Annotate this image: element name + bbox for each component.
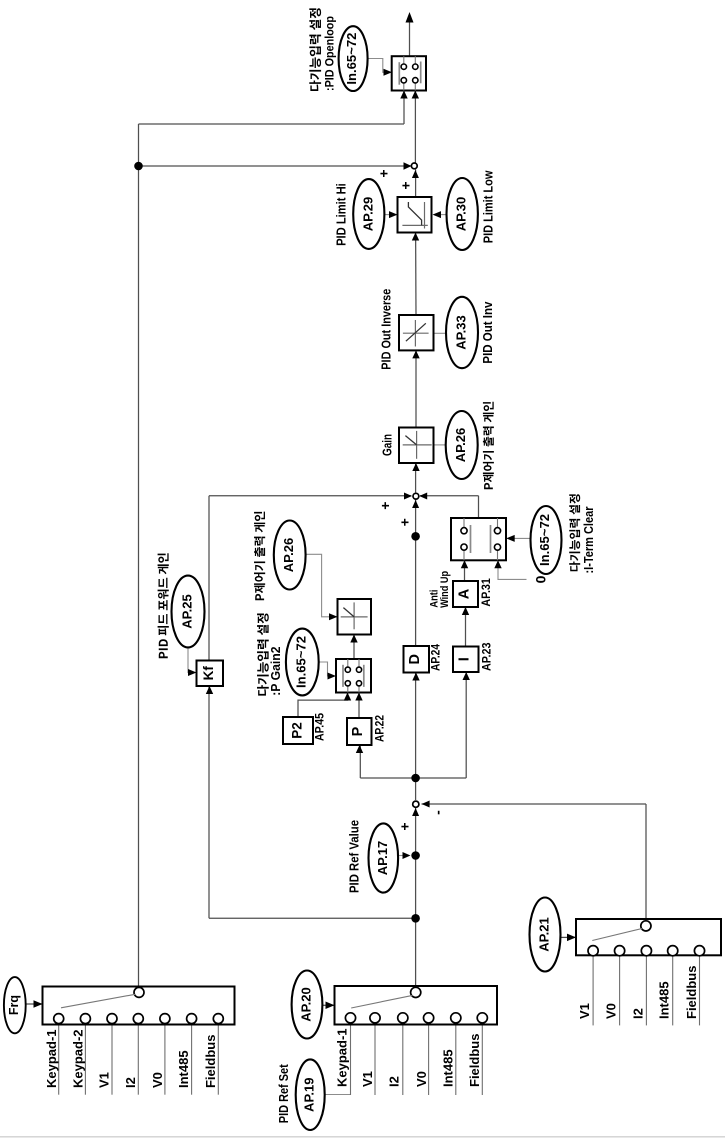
svg-text:Keypad-1: Keypad-1 — [44, 1029, 59, 1088]
svg-text:Fieldbus: Fieldbus — [467, 1034, 482, 1087]
node: junction P/I/D branch — [411, 774, 420, 783]
wire: I-Term switch output riser — [478, 496, 480, 518]
label multifunction input setting (Korean) — [257, 613, 269, 695]
svg-text:Keypad-1: Keypad-1 — [334, 1028, 349, 1087]
svg-text:AP.31: AP.31 — [479, 578, 493, 607]
switch U1 PID Openloop select — [392, 56, 426, 90]
ellipse Frq — [4, 977, 26, 1033]
wire: feedback horizontal into PID Ref Value sum — [422, 803, 647, 805]
ellipse AP.19 — [296, 1059, 325, 1130]
svg-text:Keypad-2: Keypad-2 — [71, 1029, 86, 1088]
wire: Frq top feed horizontal — [139, 123, 405, 125]
svg-text:I2: I2 — [630, 1008, 645, 1019]
svg-text:AP.24: AP.24 — [429, 644, 443, 671]
wires: PID Ref Set selector input lines — [350, 1025, 352, 1096]
ellipse AP.26 (output gain) — [446, 411, 478, 479]
svg-text:P: P — [350, 726, 366, 736]
wire: PID Out Inverse to limiter — [415, 233, 417, 316]
Gain block AP.26 — [399, 428, 434, 464]
wire: riser into I block — [465, 672, 467, 778]
wires: Frq selector input lines — [58, 1025, 60, 1095]
svg-text:V0: V0 — [604, 1003, 619, 1019]
wire: feedback riser from AP.21 selector — [645, 804, 647, 926]
svg-text:AP.45: AP.45 — [313, 713, 327, 741]
svg-text:AP.17: AP.17 — [375, 841, 390, 875]
svg-text:PID Limit Hi: PID Limit Hi — [335, 183, 349, 246]
svg-text:V1: V1 — [360, 1071, 375, 1087]
svg-text:PID Limit Low: PID Limit Low — [482, 170, 496, 243]
switch U3 P Gain2 select — [336, 659, 371, 693]
ellipse AP.17 — [369, 823, 399, 892]
wire: Kf output riser — [208, 496, 210, 661]
wire: openloop switch left input riser — [403, 91, 405, 125]
ellipse In.65~72 (P Gain2) — [286, 629, 319, 696]
svg-text:Int485: Int485 — [657, 981, 672, 1019]
wire: AP.30 stub — [434, 214, 447, 216]
svg-text:Frq: Frq — [7, 995, 21, 1015]
wire: sum circle to Gain block — [415, 463, 417, 493]
label multifunction input setting (Korean) — [309, 8, 321, 91]
wire: AP.26 stub — [434, 444, 446, 446]
svg-text:+: + — [397, 518, 413, 526]
svg-text:I: I — [457, 657, 473, 661]
wire: main line from PID Ref Set selector up to PID Ref Value sum — [415, 808, 417, 987]
node: PID terms sum circle — [413, 493, 419, 499]
ellipse In.65~72 (PID Openloop) — [339, 26, 368, 91]
svg-text:AP.33: AP.33 — [454, 315, 469, 349]
svg-text:PID Out Inv: PID Out Inv — [481, 302, 495, 364]
svg-text:Wind Up: Wind Up — [439, 571, 451, 608]
ellipse AP.20 — [292, 971, 323, 1039]
node: junction AP.17 inject — [411, 851, 420, 860]
wire: AP.17 stub into reference line — [398, 855, 409, 857]
wire: D output up to sum circle — [415, 500, 417, 647]
label P controller output gain (Korean) — [254, 512, 265, 601]
wire: AP.20 stub — [322, 1004, 333, 1006]
wire: Frq branch to output sum — [139, 165, 412, 167]
svg-text:V1: V1 — [577, 1003, 592, 1019]
svg-text:In.65~72: In.65~72 — [345, 33, 359, 85]
svg-text:V0: V0 — [150, 1072, 165, 1088]
wire: I-Term switch output horizontal into sum — [420, 495, 479, 497]
svg-text:AP.20: AP.20 — [299, 987, 314, 1021]
wire: In.65~72 connector to P switch — [319, 662, 335, 676]
wire: AP.19 connector to Keypad-1 line — [325, 1094, 351, 1096]
svg-text:D: D — [407, 654, 423, 664]
wire: Gain to PID Out Inverse — [415, 351, 417, 428]
label multifunction input setting (Korean) — [569, 494, 580, 571]
wire: P2 block to P switch — [298, 693, 348, 718]
wire: AP.25 connector to Kf — [188, 647, 196, 672]
wire: Kf feed-forward horizontal into sum — [209, 495, 411, 497]
svg-text:0: 0 — [533, 575, 549, 583]
wire: Kf input riser — [208, 686, 210, 918]
svg-text::PID Openloop: :PID Openloop — [322, 16, 336, 91]
svg-text:V0: V0 — [414, 1071, 429, 1087]
svg-text:Kf: Kf — [201, 666, 216, 681]
ellipse AP.33 — [446, 297, 478, 368]
svg-text:-: - — [430, 810, 446, 815]
svg-text:+: + — [398, 181, 414, 189]
wire: output sum to PID Openloop switch right input — [414, 91, 416, 163]
ellipse In.65~72 (I-Term Clear) — [531, 506, 562, 574]
limiter block AP.29/AP.30 — [398, 197, 432, 233]
block P2 AP.45 — [283, 717, 313, 744]
svg-text:I2: I2 — [387, 1076, 402, 1087]
svg-text:AP.22: AP.22 — [373, 715, 387, 742]
svg-text:I2: I2 — [123, 1077, 138, 1088]
wire: branch to P and I paths — [360, 777, 466, 779]
page footer rule — [0, 1136, 725, 1138]
block A anti wind up AP.31 — [453, 581, 478, 607]
wire: PID Openloop switch output — [409, 15, 411, 56]
wires: AP.21 selector input lines — [592, 955, 594, 1025]
svg-text:Fieldbus: Fieldbus — [203, 1035, 218, 1088]
svg-text:+: + — [377, 502, 393, 510]
svg-text:V1: V1 — [97, 1072, 112, 1088]
ellipse AP.26 (P gain) — [274, 521, 306, 590]
svg-text:AP.26: AP.26 — [453, 428, 468, 462]
svg-text:Fieldbus: Fieldbus — [684, 966, 699, 1019]
svg-text:AP.30: AP.30 — [454, 197, 469, 231]
wire: AP.26 connector to P gain block — [306, 554, 337, 617]
wire: A block to I-Term switch — [464, 560, 466, 581]
wire: AP.21 stub — [561, 936, 576, 938]
svg-text:P2: P2 — [290, 722, 305, 739]
P gain block (slope symbol) — [338, 599, 372, 635]
svg-text:In.65~72: In.65~72 — [294, 636, 308, 688]
wire: Frq ellipse stub — [26, 1003, 42, 1005]
svg-text:AP.29: AP.29 — [360, 197, 375, 231]
block P AP.22 — [347, 718, 372, 745]
ellipse AP.29 — [353, 179, 384, 249]
wire: Frq selector riser (left tall line) — [138, 124, 140, 987]
PID Out Inverse block — [399, 315, 434, 350]
svg-text:+: + — [376, 169, 392, 177]
wire: AP.29 stub — [385, 214, 397, 216]
node: junction Kf tap — [411, 914, 420, 923]
node: PID Ref Value sum circle — [413, 801, 419, 807]
wire: I block to A block — [465, 607, 467, 647]
svg-text:AP.23: AP.23 — [480, 642, 494, 671]
svg-text:Int485: Int485 — [176, 1050, 191, 1088]
block Kf feed forward AP.25 — [197, 661, 224, 687]
label PID feed forward gain (Korean) — [158, 553, 169, 658]
wire: main line sum to D block (branch at node) — [415, 673, 417, 801]
wire: In.65~72 stub to I-Term switch — [508, 537, 531, 539]
svg-text:PID Ref Value: PID Ref Value — [348, 820, 362, 893]
selector PID F/B Source AP.21 — [576, 919, 721, 955]
node: junction on main line — [411, 532, 420, 541]
wire: Kf tap from reference line — [209, 917, 416, 919]
wire: In.65~72 connector to openloop switch — [368, 59, 391, 73]
switch U2 I-Term Clear select — [451, 518, 506, 560]
svg-text:Int485: Int485 — [440, 1049, 455, 1087]
svg-text:In.65~72: In.65~72 — [538, 514, 552, 566]
wire: limiter to output sum circle — [415, 170, 417, 198]
svg-text:AP.21: AP.21 — [537, 917, 552, 951]
svg-text:A: A — [457, 588, 473, 599]
label P controller output gain (Korean) — [483, 402, 494, 489]
ellipse AP.30 — [447, 178, 478, 250]
node: output sum circle (top) — [411, 163, 417, 169]
svg-text::P Gain2: :P Gain2 — [269, 646, 283, 695]
svg-text:AP.26: AP.26 — [281, 538, 296, 572]
selector PID Ref Set AP.20 — [335, 986, 498, 1025]
ellipse AP.21 — [530, 898, 561, 972]
svg-text:PID Out Inverse: PID Out Inverse — [379, 289, 393, 370]
wire: riser into P block — [359, 745, 361, 778]
wire: zero constant into I-Term switch — [498, 560, 527, 579]
wire: P switch output to P gain block — [353, 635, 355, 660]
svg-text:+: + — [396, 822, 412, 830]
block D AP.24 — [404, 646, 430, 673]
block I AP.23 — [453, 647, 479, 673]
svg-text:AP.19: AP.19 — [302, 1077, 317, 1111]
node: junction Frq branch — [134, 162, 143, 171]
wire: AP.33 stub — [434, 332, 447, 334]
svg-text:Gain: Gain — [381, 434, 395, 456]
arrowheads — [406, 12, 414, 23]
svg-text:AP.25: AP.25 — [180, 594, 195, 628]
svg-text::I-Term Clear: :I-Term Clear — [582, 506, 596, 573]
svg-text:PID Ref Set: PID Ref Set — [277, 1063, 291, 1123]
selector Frq (frequency reference) — [43, 987, 235, 1025]
ellipse AP.25 — [172, 576, 205, 648]
wire: P block to P switch — [358, 693, 360, 719]
